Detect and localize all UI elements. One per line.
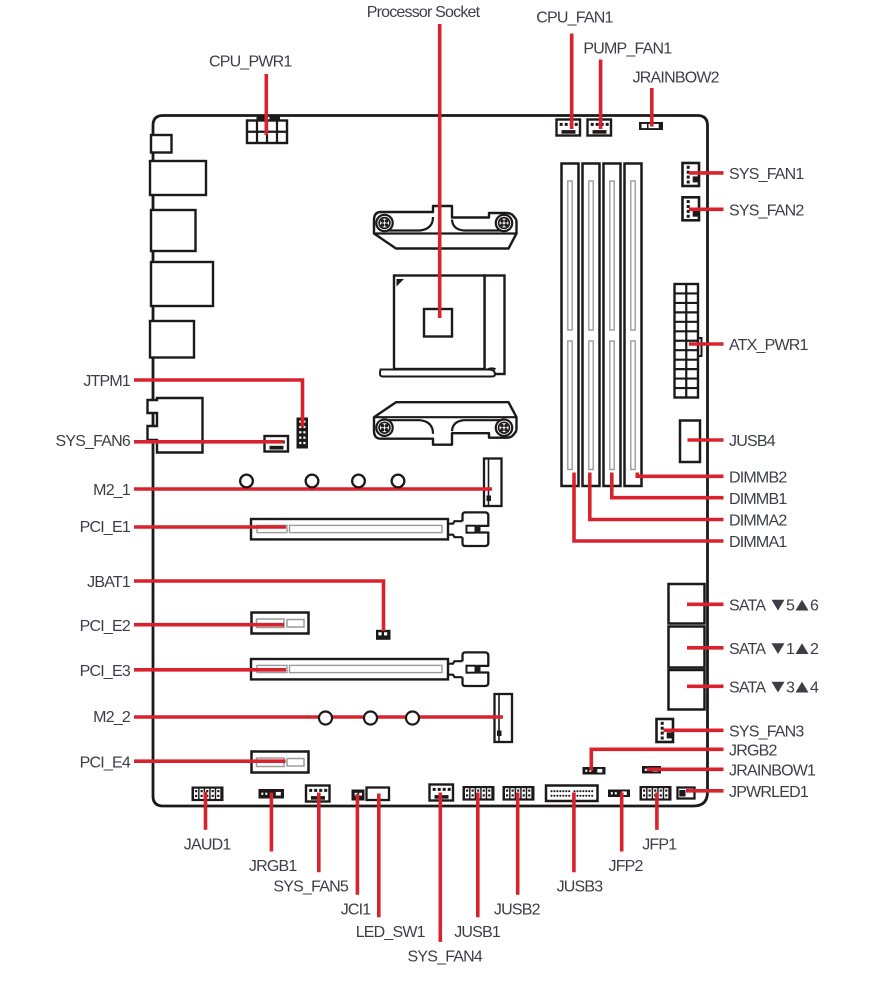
svg-text:JTPM1: JTPM1 [83,373,131,390]
M2_1 standoff holes [240,475,404,488]
leader JUSB1 [476,793,480,918]
leader JPWRLED1 [686,789,724,793]
leader SATA 3/4 [687,684,724,688]
leader PCI_E4 [134,759,286,763]
svg-text:JCI1: JCI1 [341,901,372,918]
svg-text:JRGB1: JRGB1 [249,858,297,875]
svg-text:CPU_FAN1: CPU_FAN1 [536,10,613,27]
svg-text:SYS_FAN1: SYS_FAN1 [729,166,804,183]
leader SYS_FAN5 [317,793,321,873]
leader SYS_FAN2 [689,208,724,212]
CPU socket bottom retention bracket [374,402,517,445]
connector JUSB2 [503,786,535,801]
leader SATA 5/6 [687,602,724,606]
svg-text:JRGB2: JRGB2 [729,743,777,760]
memory slot DIMMA1 [562,164,579,487]
connector ATX_PWR1 (24-pin) [675,284,702,398]
label SATA 5/6 [729,598,819,615]
svg-text:PCI_E4: PCI_E4 [80,754,131,771]
leader JRGB1 [270,793,274,852]
leader SYS_FAN3 [664,728,724,732]
PCI-E x16 slot PCI_E3 [251,652,488,686]
leader PUMP_FAN1 [599,60,603,130]
leader SYS_FAN4 [438,793,442,942]
memory slot DIMMA2 [583,164,600,487]
PCI-E x1 slot PCI_E2 [252,613,309,634]
svg-text:DIMMA2: DIMMA2 [729,513,787,530]
svg-text:SATA: SATA [729,598,766,615]
connector JPWRLED1 [678,788,695,799]
svg-text:JAUD1: JAUD1 [184,836,232,853]
Processor Socket (AM4) [380,276,505,377]
svg-text:SATA: SATA [729,641,766,658]
connector JRAINBOW2 [639,122,663,130]
svg-text:LED_SW1: LED_SW1 [356,924,426,941]
leader JRGB2 [591,749,723,770]
svg-text:Processor Socket: Processor Socket [367,4,481,21]
leader JAUD1 [204,792,208,830]
connector SYS_FAN6 [265,436,289,452]
svg-text:5: 5 [786,598,795,615]
I/O port 2 [150,161,206,195]
connector JUSB3 (USB 3.2 header) [546,786,598,802]
leader M2_2 [134,715,503,719]
svg-text:1: 1 [786,641,795,658]
switch LED_SW1 [367,788,390,801]
I/O port 6 (audio jacks) [148,398,203,453]
leader CPU_PWR1 [264,74,268,135]
M2_2 standoff holes [319,712,419,725]
connector SYS_FAN3 [657,719,674,742]
svg-text:SYS_FAN2: SYS_FAN2 [729,203,804,220]
leader CPU_FAN1 [570,34,574,130]
svg-text:M2_1: M2_1 [93,482,131,499]
leader DIMMB2 [637,473,723,477]
I/O port 1 (PS/2 area) [151,135,172,153]
leader LED_SW1 [377,794,381,918]
leader PCI_E2 [134,623,284,627]
svg-text:SYS_FAN5: SYS_FAN5 [273,879,348,896]
connector SATA 1/2 [669,627,705,668]
svg-text:PCI_E1: PCI_E1 [80,519,131,536]
svg-text:SYS_FAN6: SYS_FAN6 [55,433,130,450]
memory slot DIMMB2 [625,164,642,487]
connector JRGB1 [259,789,285,799]
svg-text:JRAINBOW1: JRAINBOW1 [729,763,816,780]
svg-text:SYS_FAN4: SYS_FAN4 [408,948,483,965]
connector JCI1 (chassis intrusion) [352,790,365,801]
svg-text:M2_2: M2_2 [93,709,131,726]
M2_1 standoff holes overlay [240,475,404,488]
svg-text:PUMP_FAN1: PUMP_FAN1 [583,40,672,57]
leader JFP1 [655,793,659,830]
svg-text:PCI_E2: PCI_E2 [80,618,131,635]
connector SYS_FAN1 [683,163,700,186]
connector CPU_FAN1 [557,120,581,136]
svg-text:SATA: SATA [729,680,766,697]
leader PCI_E3 [134,668,286,672]
leader DIMMA1 [574,473,724,542]
leader JUSB3 [572,793,576,873]
connector PUMP_FAN1 [588,120,612,136]
svg-text:JUSB3: JUSB3 [557,879,604,896]
connector JFP1 (front panel) [640,786,672,801]
svg-text:JUSB2: JUSB2 [494,901,541,918]
connector JFP2 [608,790,630,798]
I/O port 5 [150,321,194,358]
leader M2_1 [134,487,492,491]
svg-text:SYS_FAN3: SYS_FAN3 [729,724,804,741]
leader SATA 1/2 [687,646,724,650]
svg-text:DIMMA1: DIMMA1 [729,534,787,551]
svg-text:JUSB1: JUSB1 [454,924,501,941]
connector SATA 5/6 [669,584,705,624]
leader JUSB2 [516,793,520,895]
leader JFP2 [620,793,624,852]
I/O port 4 [151,262,213,306]
leader JCI1 [356,794,360,895]
leader JBAT1 [134,581,384,631]
I/O port 3 [151,210,196,251]
PCI-E x16 slot PCI_E1 [251,512,488,546]
svg-text:DIMMB1: DIMMB1 [729,491,787,508]
leader SYS_FAN6 [134,440,284,444]
leader ATX_PWR1 [689,342,724,346]
svg-text:JFP1: JFP1 [642,836,677,853]
svg-text:JFP2: JFP2 [609,858,644,875]
connector M2_2 [495,694,513,742]
motherboard outline [153,116,708,807]
connector JUSB1 [463,786,495,801]
svg-text:3: 3 [786,680,795,697]
label SATA 3/4 [729,680,819,697]
svg-text:CPU_PWR1: CPU_PWR1 [209,54,292,71]
connector CPU_PWR1 (8-pin power) [247,116,287,143]
leader DIMMA2 [590,473,724,520]
leader DIMMB1 [612,473,724,498]
leader JRAINBOW2 [650,88,654,127]
connector JAUD1 (front audio) [192,787,224,802]
connector JRAINBOW1 [642,766,670,774]
leader SYS_FAN1 [689,171,724,175]
leader JUSB4 [688,438,724,442]
svg-text:JPWRLED1: JPWRLED1 [729,784,809,801]
svg-text:6: 6 [810,598,819,615]
svg-text:JUSB4: JUSB4 [729,433,776,450]
svg-text:ATX_PWR1: ATX_PWR1 [729,337,809,354]
leader PCI_E1 [134,525,286,529]
leader JTPM1 [134,380,303,427]
PCI-E x1 slot PCI_E4 [252,752,309,773]
leader Processor Socket [438,24,442,318]
CPU socket top retention bracket [374,206,517,249]
svg-text:JBAT1: JBAT1 [87,574,131,591]
svg-text:JRAINBOW2: JRAINBOW2 [633,69,720,86]
svg-text:2: 2 [810,641,819,658]
jumper JBAT1 (clear CMOS) [376,630,391,640]
connector JTPM1 (TPM header) [297,418,309,449]
svg-text:4: 4 [810,680,819,697]
connector SYS_FAN4 [430,785,454,801]
connector SATA 3/4 [669,670,705,710]
leader JRAINBOW1 [647,767,724,771]
connector JUSB4 (USB 3.2 header) [680,421,700,463]
label SATA 1/2 [729,641,819,658]
memory slot DIMMB1 [604,164,621,487]
connector SYS_FAN5 [306,786,330,802]
svg-text:DIMMB2: DIMMB2 [729,470,787,487]
svg-text:PCI_E3: PCI_E3 [80,663,131,680]
connector SYS_FAN2 [683,197,700,220]
connector M2_1 [484,459,502,507]
connector JRGB2 [583,767,606,775]
